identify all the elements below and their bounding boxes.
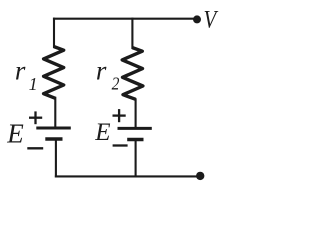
svg-text:2: 2 [112,73,120,93]
svg-text:r: r [15,55,26,85]
svg-text:V: V [204,6,219,33]
svg-text:E: E [94,119,110,146]
svg-text:E: E [6,119,24,149]
svg-text:1: 1 [29,74,38,94]
svg-text:r: r [96,55,107,85]
